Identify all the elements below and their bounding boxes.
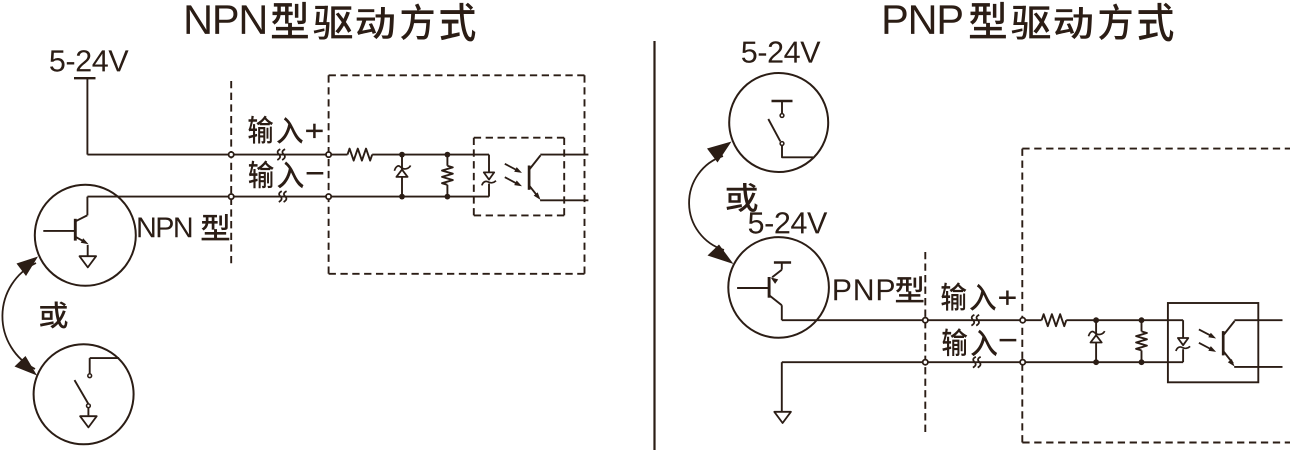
optocoupler box L — [474, 137, 564, 139]
phototransistor R — [1222, 331, 1225, 355]
optocoupler LED L — [488, 155, 490, 173]
wire break squiggle top L — [277, 149, 280, 160]
junction top resistor L — [445, 152, 451, 158]
label 输入- right — [942, 328, 967, 356]
title NPN型驱动方式 cjk — [272, 2, 308, 39]
junction bottom zener L — [399, 194, 405, 200]
transistor Q2 PNP — [774, 261, 791, 263]
node input+ left L — [229, 152, 234, 157]
node input+ right L — [326, 152, 331, 157]
wire break squiggle bottom L — [279, 191, 282, 202]
resistor shunt L — [442, 166, 453, 185]
or-arrow head bottom left — [15, 356, 38, 376]
wire 输入- bottom L — [231, 196, 489, 198]
switch S1 — [90, 357, 119, 359]
label 输入- left — [249, 160, 274, 188]
label 输入+ left — [248, 116, 273, 144]
dashed interface box right — [1022, 148, 1290, 150]
junction top zener L — [399, 152, 405, 158]
or-arrow arc right — [689, 156, 724, 250]
or-arrow head bottom right — [708, 245, 734, 265]
transistor Q1 NPN — [43, 230, 75, 232]
label 5-24V right mid — [749, 212, 763, 233]
node input- right L — [326, 194, 331, 199]
wire emitter out R — [1234, 366, 1282, 368]
junction bottom resistor R — [1139, 359, 1145, 365]
label NPN型 — [138, 218, 154, 238]
label PNP型 — [834, 279, 850, 300]
wire power drop — [86, 78, 88, 154]
junction top zener R — [1093, 317, 1099, 323]
label minus left — [307, 172, 324, 175]
ground switch left — [80, 416, 97, 427]
label 5-24V right top — [742, 42, 756, 63]
light arrows L — [505, 164, 518, 171]
label 5-24V left — [50, 50, 64, 71]
junction bottom resistor L — [445, 194, 451, 200]
wire collector out L — [540, 154, 588, 156]
wire 5-24V to input+ — [87, 154, 231, 156]
or-arrow head top right — [707, 142, 732, 163]
resistor series R — [1042, 314, 1067, 326]
wire input- to ground leg — [782, 361, 926, 363]
zener diode R — [1095, 320, 1097, 335]
wire PNP collector to input+ — [782, 319, 926, 321]
ground right — [774, 412, 791, 423]
wire 输入+ top R — [925, 319, 1041, 321]
title PNP型驱动方式 cjk — [970, 2, 1006, 39]
label 或 left — [40, 302, 67, 329]
divider line — [653, 41, 655, 450]
label 或 right — [727, 183, 758, 212]
transistor circle PNP — [728, 237, 829, 338]
transistor circle NPN — [35, 185, 136, 286]
dashed boundary line right — [924, 252, 926, 432]
wire NPN collector to input- — [87, 196, 231, 198]
wire break squiggle top R — [971, 315, 974, 326]
zener diode L — [401, 155, 403, 170]
optocoupler box R — [1168, 303, 1258, 382]
resistor series L — [348, 149, 373, 161]
label plus left — [306, 130, 323, 133]
resistor shunt R — [1136, 331, 1147, 350]
wire emitter out L — [540, 199, 588, 201]
wire 输入- bottom R — [925, 361, 1183, 363]
or-arrow head top left — [17, 257, 39, 277]
phototransistor L — [528, 166, 531, 190]
switch circle left — [34, 344, 134, 444]
or-arrow arc left — [2, 263, 36, 369]
label 输入+ right — [941, 282, 966, 310]
junction bottom zener R — [1093, 359, 1099, 365]
ground NPN emitter — [80, 256, 97, 267]
power rail bar — [74, 77, 96, 79]
node input- left L — [229, 194, 234, 199]
label minus right — [1000, 339, 1017, 342]
title PNP型驱动方式 latin — [885, 5, 907, 34]
switch circle right — [729, 73, 828, 172]
node input+ right R — [1020, 318, 1025, 323]
label plus right — [999, 296, 1016, 299]
node input- right R — [1020, 360, 1025, 365]
optocoupler LED R — [1182, 320, 1184, 338]
light arrows R — [1199, 329, 1212, 336]
wire 输入+ top L — [231, 154, 347, 156]
node input+ left R — [923, 318, 928, 323]
node input- left R — [923, 360, 928, 365]
wire collector out R — [1234, 319, 1282, 321]
switch S2 — [772, 100, 793, 102]
title NPN型驱动方式 latin — [187, 5, 210, 34]
dashed interface box — [329, 74, 585, 76]
junction top resistor R — [1139, 317, 1145, 323]
dashed boundary line — [230, 81, 232, 263]
wire break squiggle bottom R — [973, 357, 976, 368]
